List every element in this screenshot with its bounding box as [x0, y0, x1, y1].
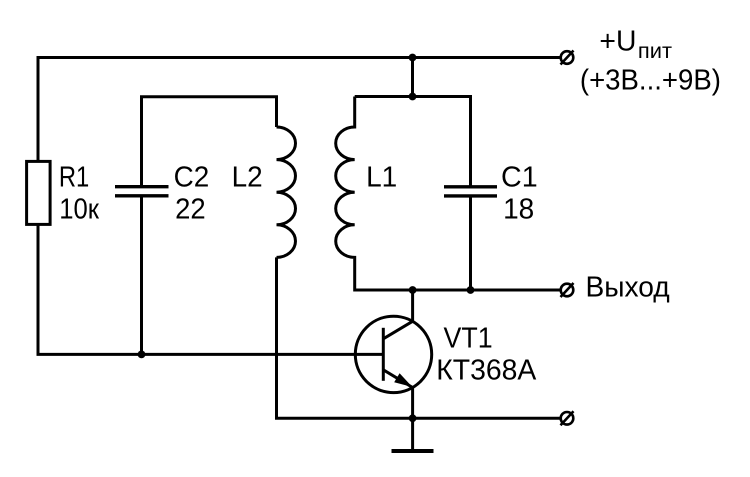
svg-text:C2: C2: [174, 161, 210, 193]
svg-text:22: 22: [175, 193, 206, 225]
svg-text:(+3В...+9В): (+3В...+9В): [580, 64, 721, 96]
svg-text:VT1: VT1: [444, 322, 493, 354]
svg-text:пит: пит: [638, 40, 672, 63]
svg-text:18: 18: [503, 193, 534, 225]
svg-text:+U: +U: [599, 26, 636, 58]
svg-text:C1: C1: [501, 161, 538, 193]
svg-text:10к: 10к: [59, 193, 99, 225]
svg-text:Выход: Выход: [585, 272, 669, 304]
svg-text:L2: L2: [232, 161, 263, 193]
svg-text:КТ368А: КТ368А: [436, 355, 537, 387]
svg-text:R1: R1: [59, 161, 89, 193]
svg-text:L1: L1: [366, 161, 397, 193]
